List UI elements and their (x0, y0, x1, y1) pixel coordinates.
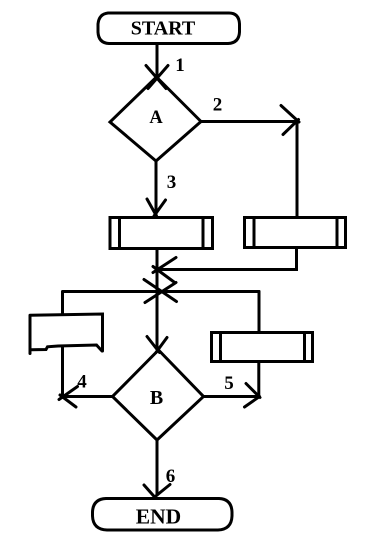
svg-text:A: A (149, 108, 163, 128)
terminator START (98, 13, 240, 44)
wire right riser (258, 292, 261, 332)
arrowhead left at center join (153, 258, 176, 283)
arrowhead into B top (147, 337, 167, 353)
svg-text:4: 4 (77, 372, 87, 393)
center wire upper-left box to diamond B (156, 249, 159, 348)
svg-text:B: B (150, 387, 163, 409)
process box lower-left (hand drawn) (30, 314, 103, 354)
arrowhead left branch 4 (59, 387, 78, 408)
wire A right (branch 2) (201, 120, 295, 123)
svg-text:END: END (136, 505, 181, 529)
wire B down (branch 6) (156, 440, 159, 495)
decision diamond B (113, 350, 204, 440)
terminator END (93, 499, 233, 531)
arrowhead right branch 5 (245, 384, 261, 408)
wire B right (branch 5) (204, 395, 258, 398)
arrowhead X at junction (144, 280, 177, 303)
predefined process box upper-left (110, 218, 213, 249)
wire left riser (61, 292, 64, 314)
wire corner down to right process (296, 121, 299, 216)
predefined process box lower-right (212, 333, 313, 362)
svg-text:6: 6 (166, 466, 176, 487)
wire START to A (156, 44, 159, 75)
arrowhead into A (X style) (146, 66, 168, 89)
wire A down (branch 3) (155, 161, 158, 214)
arrowhead right at corner (281, 106, 299, 135)
svg-text:3: 3 (167, 172, 177, 193)
inner bars upper-left box (120, 218, 204, 249)
predefined process box upper-right (245, 218, 346, 248)
arrowhead down into left process (147, 199, 166, 216)
inner bars lower-right box (221, 333, 305, 362)
wire from upper-right box down then left (159, 248, 297, 270)
svg-text:1: 1 (175, 55, 185, 76)
arrowhead into END (144, 485, 170, 499)
wire lower-right box down (257, 362, 260, 395)
wire B left (branch 4) (64, 395, 113, 398)
wire lower-left box down (61, 346, 64, 395)
svg-text:2: 2 (213, 95, 223, 116)
inner bars upper-right box (254, 218, 337, 248)
svg-text:START: START (131, 18, 196, 40)
junction wire horizontal (63, 290, 259, 293)
decision diamond A (110, 77, 201, 161)
svg-text:5: 5 (224, 373, 234, 394)
